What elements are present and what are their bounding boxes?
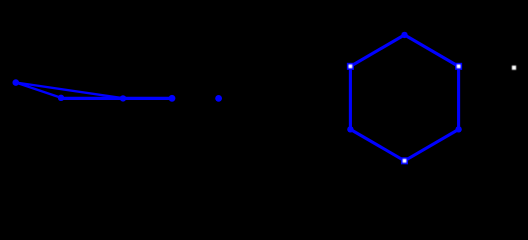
- node C: [120, 95, 126, 101]
- node B: [58, 95, 64, 101]
- wire edge A-C: [16, 83, 123, 99]
- node H-bottom white square marker: [401, 157, 408, 164]
- wire edge A-B: [16, 83, 61, 98]
- node H-lower-right blue dot: [455, 126, 461, 132]
- node H-upper-left white square marker: [347, 63, 354, 70]
- wire edge B-C-D horizontal: [61, 97, 172, 100]
- node H-top blue dot: [401, 32, 407, 38]
- node H-lower-left blue dot: [347, 126, 353, 132]
- node E isolated dot: [215, 95, 222, 102]
- node H-upper-right white square marker: [455, 63, 462, 70]
- hexagon cycle edges: [350, 35, 458, 161]
- node D: [169, 95, 176, 102]
- node A: [13, 79, 20, 86]
- node F isolated white square: [512, 66, 516, 70]
